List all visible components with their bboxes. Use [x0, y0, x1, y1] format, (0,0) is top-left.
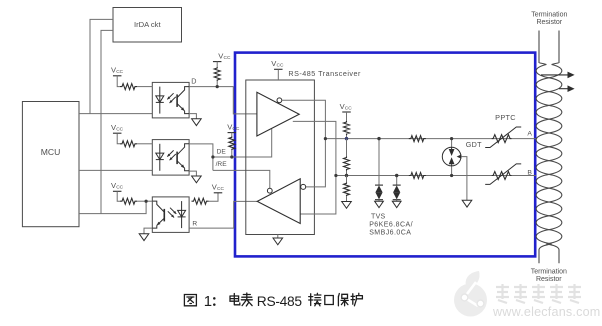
svg-text:CC: CC [116, 185, 123, 191]
svg-text:Resistor: Resistor [536, 276, 562, 283]
svg-text:B: B [527, 169, 532, 176]
svg-text:R: R [192, 221, 197, 228]
svg-text:SMBJ6.0CA: SMBJ6.0CA [369, 230, 411, 237]
svg-text:RS-485 Transceiver: RS-485 Transceiver [288, 69, 361, 78]
svg-text:PPTC: PPTC [495, 113, 516, 122]
svg-text:DE: DE [217, 149, 227, 156]
svg-text:RS-485: RS-485 [257, 294, 303, 309]
svg-text:CC: CC [345, 105, 352, 111]
svg-text:1: 1 [204, 293, 212, 310]
svg-text:CC: CC [224, 55, 231, 61]
svg-text:IrDA ckt: IrDA ckt [134, 20, 161, 29]
svg-text:Termination: Termination [531, 12, 567, 19]
svg-text:GDT: GDT [466, 140, 482, 149]
svg-text:/RE: /RE [216, 161, 228, 168]
svg-text:CC: CC [217, 186, 224, 192]
svg-text:www.elecfans.com: www.elecfans.com [492, 305, 601, 319]
svg-text:Resistor: Resistor [536, 19, 562, 26]
svg-text:CC: CC [116, 127, 123, 133]
svg-text:A: A [527, 131, 532, 138]
svg-text:D: D [191, 76, 196, 85]
svg-text:Termination: Termination [531, 269, 567, 276]
svg-text:CC: CC [277, 63, 284, 69]
svg-text:CC: CC [116, 69, 123, 75]
svg-text:CC: CC [232, 126, 239, 132]
svg-text:P6KE6.8CA/: P6KE6.8CA/ [369, 222, 413, 229]
svg-text:TVS: TVS [371, 214, 386, 221]
svg-text:MCU: MCU [41, 147, 61, 157]
